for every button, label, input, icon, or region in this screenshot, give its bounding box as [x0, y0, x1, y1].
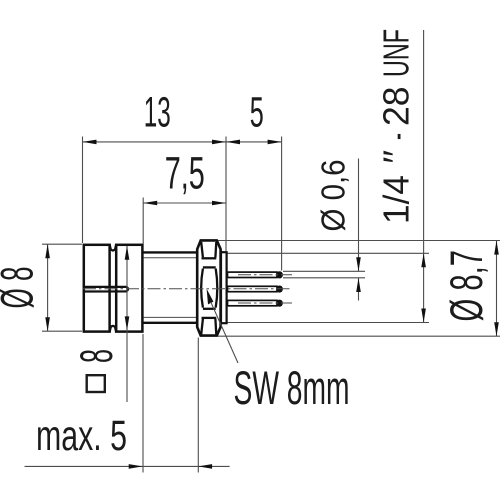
svg-text:Ø 8,7: Ø 8,7	[441, 250, 492, 322]
svg-text:′′: ′′	[376, 150, 417, 164]
svg-text:max. 5: max. 5	[36, 412, 127, 460]
svg-text:Ø 8: Ø 8	[0, 267, 43, 309]
svg-text:8: 8	[71, 349, 122, 363]
svg-text:SW 8mm: SW 8mm	[234, 362, 350, 415]
svg-text:Ø 0,6: Ø 0,6	[316, 160, 353, 232]
svg-text:7,5: 7,5	[165, 148, 205, 199]
svg-text:5: 5	[250, 88, 264, 136]
svg-text:-: -	[376, 133, 417, 140]
svg-text:13: 13	[144, 88, 171, 136]
svg-text:1/4: 1/4	[376, 175, 417, 224]
svg-text:28: 28	[376, 87, 417, 127]
svg-text:UNF: UNF	[376, 29, 417, 77]
